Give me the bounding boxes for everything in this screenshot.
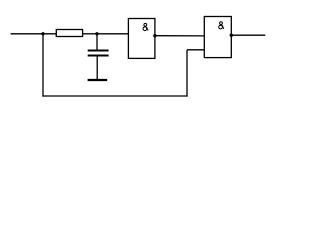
- ground bar: [88, 79, 108, 81]
- wire output right: [231, 34, 265, 36]
- wire U1 output to U2 input: [155, 35, 204, 37]
- node A junction: [41, 32, 44, 35]
- wire U2 lower input stub: [187, 49, 204, 51]
- wire node A down vertical left: [42, 34, 44, 97]
- gate U1 box: [128, 19, 155, 59]
- gate U2 box: [204, 17, 231, 58]
- wire resistor to node B: [83, 33, 97, 35]
- capacitor C1 top plate: [88, 50, 109, 52]
- wire capacitor to ground: [96, 57, 98, 80]
- gate U1 output node junction: [153, 34, 156, 37]
- wire feedback bottom: [42, 95, 187, 97]
- wire feedback vertical right: [186, 50, 188, 97]
- gate U2 label &: [219, 22, 224, 29]
- gate U2 output node junction: [230, 34, 233, 37]
- capacitor C1 bottom plate: [88, 55, 109, 57]
- wire node B to gate U1 input: [97, 33, 128, 35]
- wire node B down to capacitor: [96, 34, 98, 50]
- gate U1 label &: [143, 23, 148, 30]
- wire input left: [11, 33, 57, 35]
- resistor R1: [56, 30, 82, 37]
- node B junction: [95, 32, 98, 35]
